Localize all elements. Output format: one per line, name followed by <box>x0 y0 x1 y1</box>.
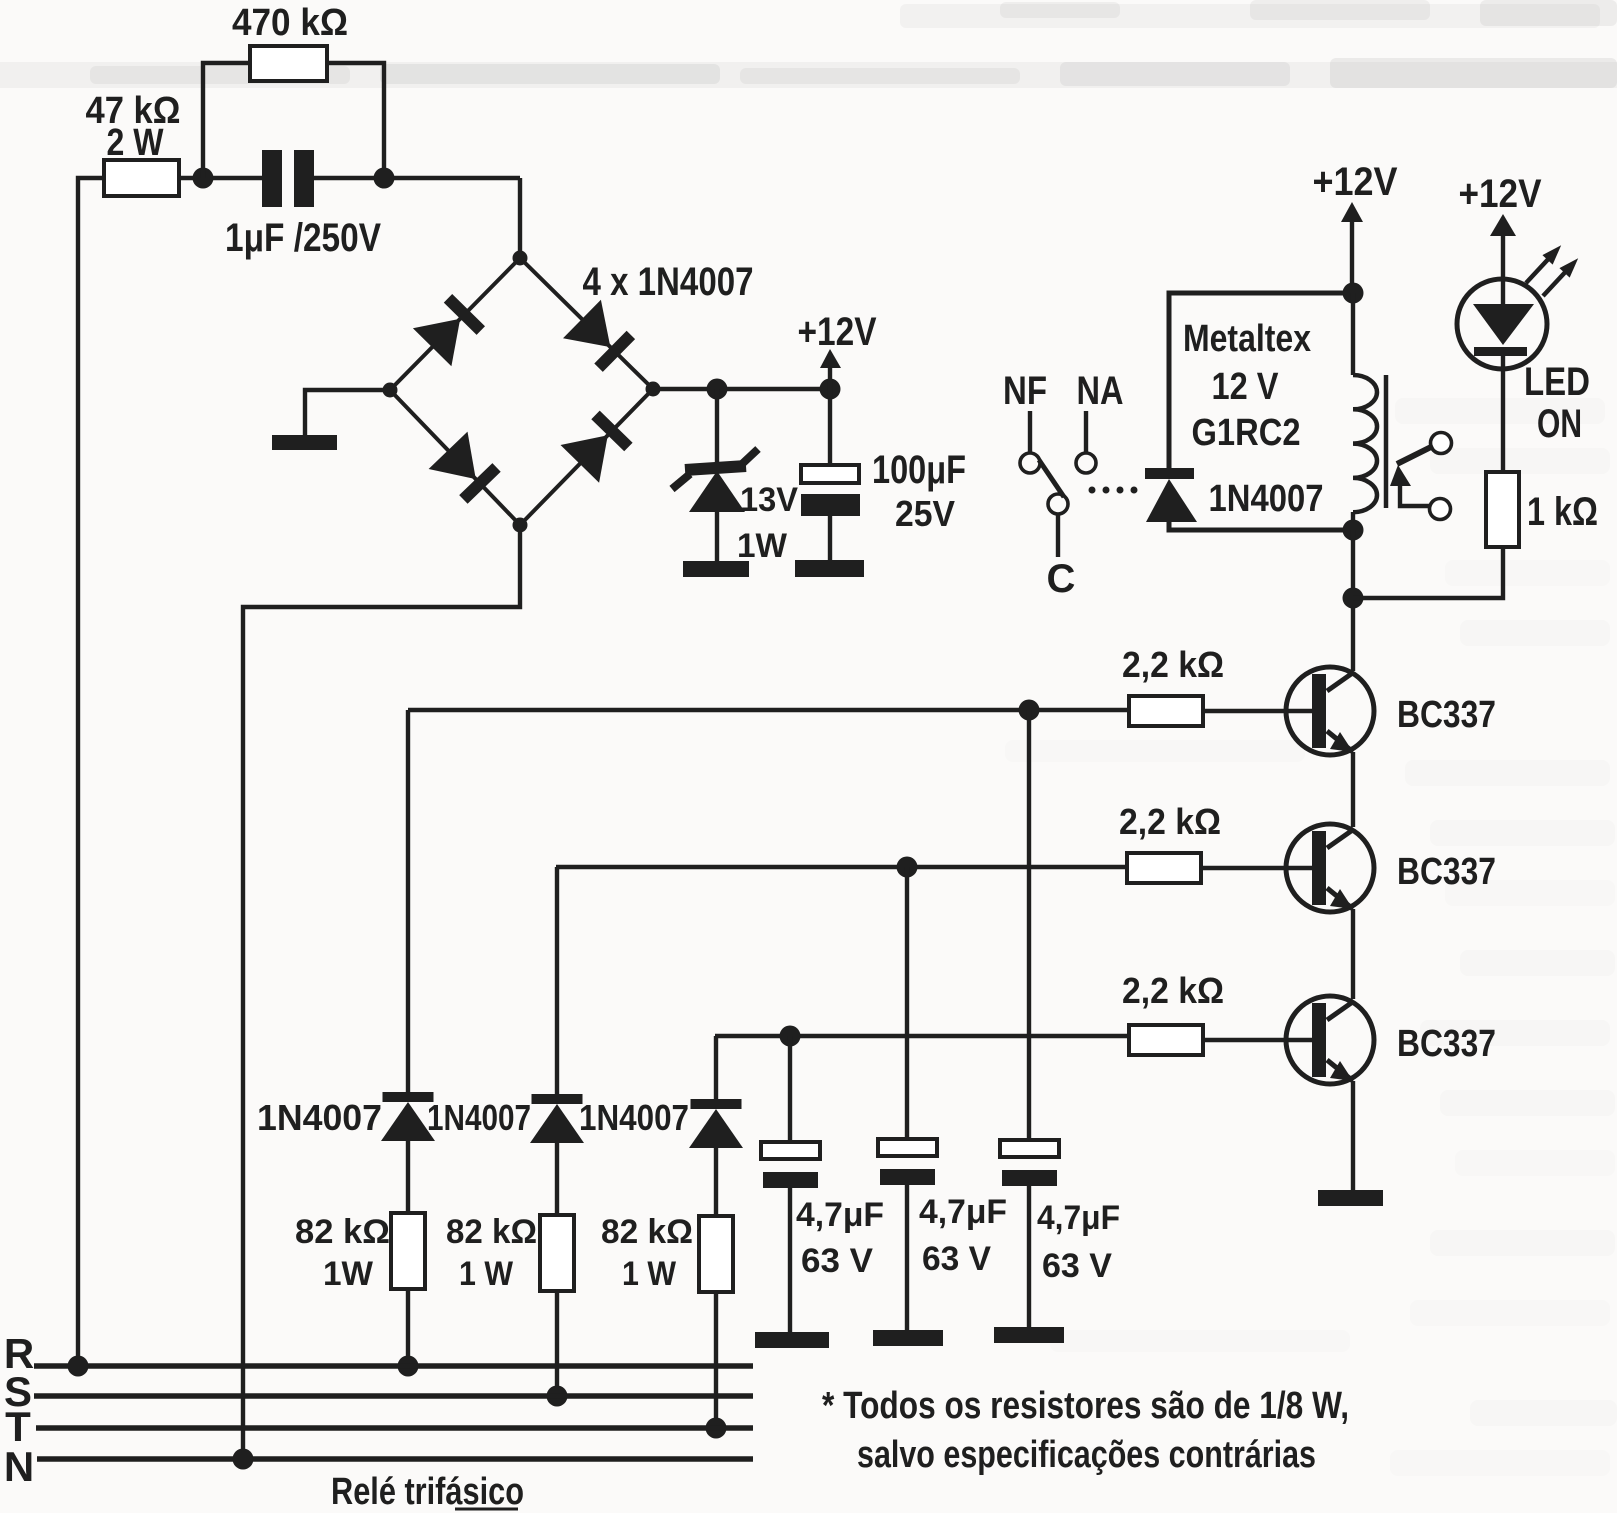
svg-text:2,2 kΩ: 2,2 kΩ <box>1119 801 1221 842</box>
svg-text:1 W: 1 W <box>622 1255 677 1293</box>
svg-text:2,2 kΩ: 2,2 kΩ <box>1122 970 1224 1011</box>
svg-text:1 kΩ: 1 kΩ <box>1527 490 1598 534</box>
svg-text:1N4007: 1N4007 <box>257 1097 382 1138</box>
svg-text:NA: NA <box>1077 369 1124 413</box>
svg-text:Metaltex: Metaltex <box>1183 318 1311 360</box>
svg-text:82 kΩ: 82 kΩ <box>295 1213 390 1251</box>
svg-text:12 V: 12 V <box>1212 366 1280 408</box>
svg-text:1W: 1W <box>737 527 788 565</box>
svg-text:+12V: +12V <box>1459 172 1542 216</box>
svg-text:82 kΩ: 82 kΩ <box>601 1213 693 1251</box>
svg-text:82 kΩ: 82 kΩ <box>446 1213 537 1251</box>
svg-text:salvo especificações contrária: salvo especificações contrárias <box>857 1434 1316 1476</box>
svg-text:1μF /250V: 1μF /250V <box>225 216 381 260</box>
svg-text:C: C <box>1047 557 1076 601</box>
svg-text:4 x 1N4007: 4 x 1N4007 <box>583 260 754 304</box>
svg-text:1N4007: 1N4007 <box>579 1097 689 1138</box>
svg-text:470 kΩ: 470 kΩ <box>232 2 348 44</box>
svg-text:G1RC2: G1RC2 <box>1192 412 1301 454</box>
svg-text:63 V: 63 V <box>801 1242 873 1280</box>
svg-text:1N4007: 1N4007 <box>1209 478 1324 520</box>
svg-text:ON: ON <box>1537 402 1582 446</box>
svg-text:1N4007: 1N4007 <box>427 1097 531 1138</box>
svg-text:Relé trifásico: Relé trifásico <box>331 1471 524 1513</box>
svg-text:1W: 1W <box>323 1255 374 1293</box>
svg-text:4,7μF: 4,7μF <box>796 1196 884 1234</box>
svg-text:13V: 13V <box>740 481 798 519</box>
svg-text:* Todos os resistores são de 1: * Todos os resistores são de 1/8 W, <box>822 1385 1349 1427</box>
svg-text:+12V: +12V <box>1313 160 1398 204</box>
svg-text:BC337: BC337 <box>1397 694 1496 736</box>
svg-text:2 W: 2 W <box>107 122 164 164</box>
svg-text:63 V: 63 V <box>1042 1247 1112 1285</box>
svg-text:1 W: 1 W <box>459 1255 514 1293</box>
svg-text:+12V: +12V <box>798 310 877 354</box>
svg-text:NF: NF <box>1003 369 1047 413</box>
svg-text:63 V: 63 V <box>922 1240 991 1278</box>
svg-text:4,7μF: 4,7μF <box>1037 1199 1120 1237</box>
svg-text:N: N <box>4 1443 34 1490</box>
svg-text:100μF: 100μF <box>872 448 966 492</box>
svg-text:2,2 kΩ: 2,2 kΩ <box>1122 644 1224 685</box>
svg-text:4,7μF: 4,7μF <box>919 1193 1007 1231</box>
svg-text:BC337: BC337 <box>1397 851 1496 893</box>
svg-text:LED: LED <box>1524 360 1590 404</box>
svg-text:BC337: BC337 <box>1397 1023 1496 1065</box>
svg-text:25V: 25V <box>895 493 955 534</box>
